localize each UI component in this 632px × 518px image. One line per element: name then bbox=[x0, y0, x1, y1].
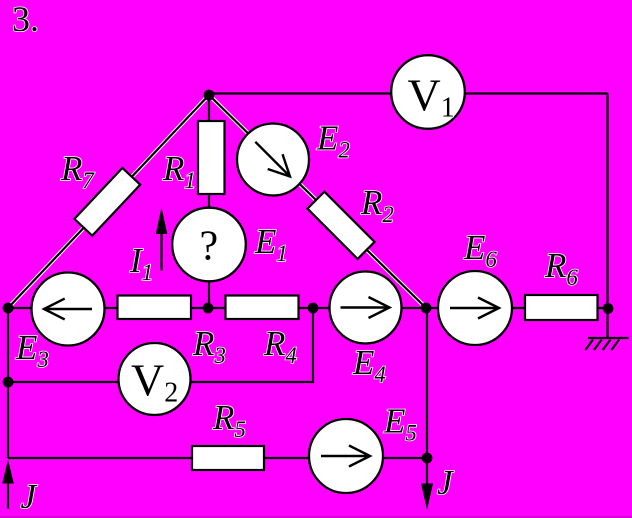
svg-text:3.: 3. bbox=[12, 0, 39, 39]
svg-text:J: J bbox=[21, 477, 38, 516]
svg-text:?: ? bbox=[200, 224, 219, 270]
svg-text:J: J bbox=[437, 463, 454, 502]
